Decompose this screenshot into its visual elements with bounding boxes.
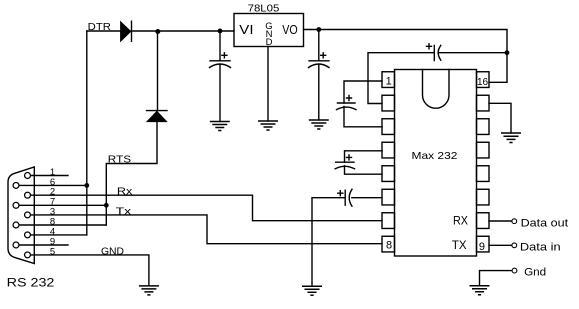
svg-text:78L05: 78L05 (248, 2, 280, 14)
svg-text:Gnd: Gnd (524, 267, 546, 279)
svg-text:16: 16 (477, 77, 489, 88)
svg-text:1: 1 (386, 76, 392, 88)
svg-text:Data out: Data out (521, 217, 569, 229)
svg-text:8: 8 (386, 240, 392, 252)
svg-text:Tx: Tx (116, 205, 132, 217)
svg-text:9: 9 (479, 241, 485, 253)
svg-text:Max 232: Max 232 (412, 150, 458, 162)
svg-text:RS 232: RS 232 (7, 276, 55, 290)
svg-text:RTS: RTS (108, 153, 131, 165)
svg-text:GND: GND (101, 245, 124, 257)
svg-text:DTR: DTR (88, 21, 112, 33)
svg-text:TX: TX (452, 240, 467, 252)
svg-text:VI: VI (239, 23, 253, 37)
svg-text:5: 5 (50, 246, 55, 257)
svg-text:Data in: Data in (520, 241, 561, 253)
svg-text:Rx: Rx (117, 186, 133, 198)
svg-text:D: D (266, 37, 273, 48)
svg-text:RX: RX (453, 215, 468, 227)
svg-text:VO: VO (282, 23, 298, 37)
